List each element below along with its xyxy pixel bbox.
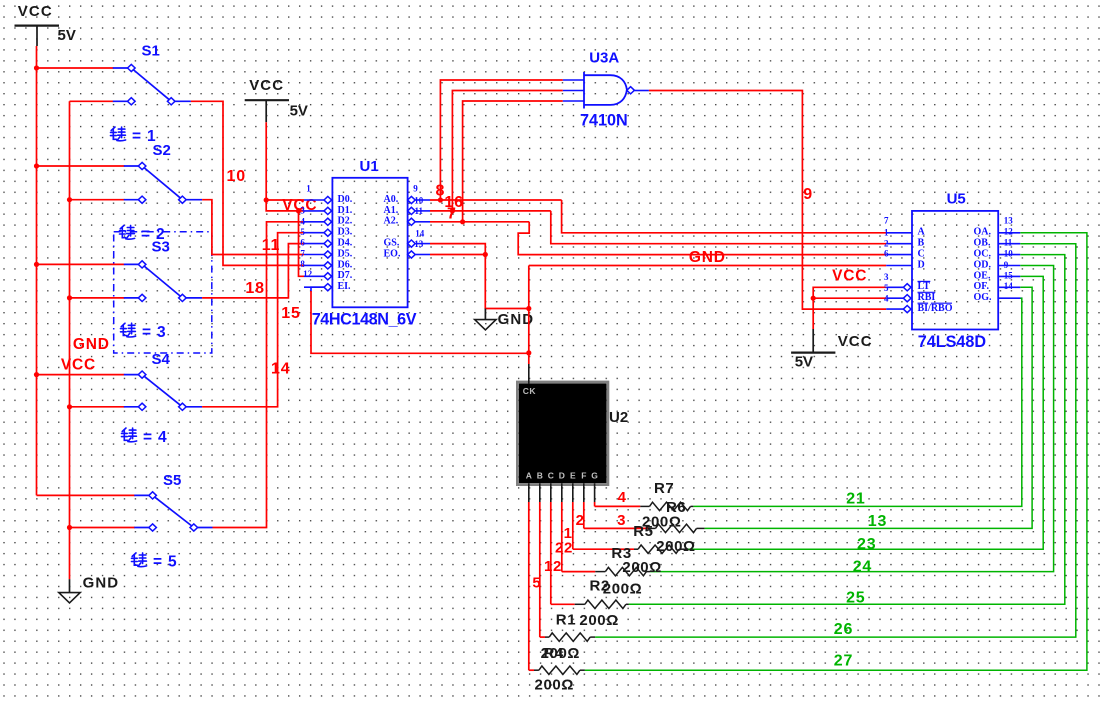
- pin U1 D3: [304, 227, 353, 238]
- svg-text:74LS48D: 74LS48D: [918, 333, 987, 351]
- wire A0 to U5 A: [562, 200, 887, 233]
- svg-text:7: 7: [300, 248, 305, 258]
- wire net 9 U3A out to U5 BI/RBO: [649, 91, 886, 310]
- pin U1 GS: [384, 238, 431, 249]
- overline LT: [918, 280, 931, 282]
- svg-text:18: 18: [245, 280, 264, 297]
- wire net 7 A2 to U3A input 3: [430, 221, 529, 223]
- svg-text:9: 9: [413, 184, 418, 194]
- svg-text:21: 21: [846, 491, 865, 508]
- svg-text:GND: GND: [83, 575, 120, 592]
- wire VCC rail to S5 pin1: [37, 494, 136, 496]
- wire R7 to U5 (green): [693, 298, 1021, 506]
- pin U5 A: [886, 227, 925, 238]
- svg-text:R7: R7: [654, 480, 674, 497]
- node A0 tap: [438, 197, 443, 202]
- svg-text:OE.: OE.: [974, 270, 991, 281]
- pin U1 D5: [304, 248, 353, 259]
- pin U1 EI: [304, 281, 351, 292]
- wire VCC to U1 D0: [265, 122, 267, 200]
- svg-text:12: 12: [544, 558, 562, 575]
- wire A2 to U5 C: [518, 222, 886, 255]
- svg-text:A: A: [918, 227, 926, 238]
- svg-text:5: 5: [300, 227, 305, 237]
- svg-text:RBI: RBI: [918, 292, 936, 303]
- overline BI/RBO: [918, 302, 953, 304]
- svg-text:OC.: OC.: [974, 249, 992, 260]
- pin numbers U1 left: [300, 184, 312, 280]
- pin U5 BI/RBO: [886, 303, 953, 314]
- svg-text:26: 26: [834, 621, 853, 638]
- svg-text:13: 13: [868, 513, 887, 530]
- svg-text:12: 12: [303, 269, 313, 279]
- svg-text:5V: 5V: [58, 27, 76, 44]
- node A2 tap: [460, 219, 465, 224]
- pin numbers U1 right: [413, 184, 424, 249]
- svg-text:GND: GND: [73, 336, 110, 353]
- svg-text:200Ω: 200Ω: [579, 612, 618, 629]
- wire U2 segment pin to R1: [540, 502, 545, 637]
- pin U1 A2: [384, 216, 431, 227]
- pin U1 EO: [384, 248, 431, 259]
- wire VCC to U1 D1: [266, 200, 304, 211]
- wire A1 to U5 B: [551, 211, 886, 244]
- svg-text:B: B: [537, 471, 543, 481]
- svg-text:D7.: D7.: [338, 270, 353, 281]
- svg-text:13: 13: [414, 239, 424, 249]
- svg-text:74HC148N_6V: 74HC148N_6V: [312, 310, 417, 328]
- pin U5 RBI: [886, 292, 935, 303]
- svg-text:13: 13: [1004, 216, 1014, 226]
- node LT-RBI junction: [811, 296, 816, 301]
- svg-text:24: 24: [853, 558, 872, 575]
- svg-text:BI/RBO: BI/RBO: [918, 303, 953, 314]
- pin numbers U5 right: [1004, 216, 1014, 291]
- svg-text:22: 22: [555, 539, 573, 556]
- svg-text:5: 5: [532, 575, 540, 592]
- wire VCC rail (left vertical): [36, 46, 38, 495]
- switch S1: [113, 64, 191, 105]
- wire U5 RBI to VCC: [813, 297, 886, 299]
- svg-text:200Ω: 200Ω: [622, 559, 661, 576]
- overline RBI: [918, 291, 936, 293]
- svg-text:D4.: D4.: [338, 238, 353, 249]
- svg-text:10: 10: [227, 168, 246, 185]
- pin U5 C: [886, 249, 925, 260]
- svg-text:12: 12: [1004, 227, 1014, 237]
- wire VCC rail to S4 pin1: [37, 374, 125, 376]
- power VCC symbol upper-middle: [245, 77, 308, 122]
- svg-text:3: 3: [884, 272, 889, 282]
- svg-text:= 3: = 3: [142, 324, 166, 341]
- display U2 pin stubs: [529, 483, 595, 502]
- svg-text:OA.: OA.: [974, 227, 992, 238]
- pin U5 OB: [974, 238, 1021, 249]
- pin U1 D0: [304, 194, 353, 205]
- wire GND rail corner to S1 pin2: [70, 100, 114, 102]
- wire U1 EO to GND: [430, 254, 485, 256]
- svg-text:OD.: OD.: [974, 259, 992, 270]
- svg-text:15: 15: [281, 305, 300, 322]
- wire U1 GS to EO junction: [430, 244, 485, 255]
- wire GND rail (second vertical): [69, 101, 71, 579]
- resistor R5 200 ohm: [634, 545, 688, 553]
- wire U2 segment pin to R2: [551, 502, 575, 604]
- svg-text:6: 6: [884, 249, 889, 259]
- svg-text:D0.: D0.: [338, 194, 353, 205]
- svg-text:EO.: EO.: [384, 248, 401, 259]
- svg-text:D5.: D5.: [338, 248, 353, 259]
- wire R3 to U5 (green): [650, 266, 1054, 572]
- label key=3: [121, 323, 136, 337]
- wire net 8 A0 to U3A input 1: [430, 199, 562, 201]
- node VCC-D0 junction: [264, 197, 269, 202]
- svg-text:200Ω: 200Ω: [535, 677, 574, 694]
- svg-text:B: B: [918, 238, 925, 249]
- node A1 tap: [450, 208, 455, 213]
- ground symbol middle: [475, 309, 535, 330]
- wire net GND to U5 D: [529, 265, 886, 267]
- svg-text:10: 10: [1004, 248, 1014, 258]
- power VCC symbol top-left: [15, 3, 76, 46]
- svg-text:U1: U1: [360, 158, 379, 175]
- pin U1 D1: [304, 205, 353, 216]
- ground symbol bottom-left: [59, 575, 119, 603]
- svg-text:D3.: D3.: [338, 227, 353, 238]
- svg-text:S4: S4: [152, 351, 171, 368]
- svg-text:VCC: VCC: [18, 3, 53, 20]
- switch S3: [124, 261, 202, 302]
- svg-text:= 2: = 2: [141, 226, 165, 243]
- wire R6 to U5 (green): [705, 287, 1033, 528]
- wire R2 to U5 (green): [629, 255, 1065, 605]
- switch S5: [134, 492, 212, 531]
- svg-text:= 5: = 5: [153, 554, 177, 571]
- wire U2 segment pin to R6: [584, 502, 648, 528]
- svg-text:25: 25: [846, 589, 865, 606]
- svg-text:5V: 5V: [795, 354, 813, 371]
- wire net 10 S1 out to U1 D6: [191, 101, 304, 265]
- pin U1 A0: [384, 194, 431, 205]
- pin U1 D4: [304, 238, 353, 249]
- svg-text:GS.: GS.: [384, 238, 400, 249]
- svg-text:C: C: [548, 471, 554, 481]
- pin U5 OG: [974, 292, 1023, 303]
- svg-text:EI.: EI.: [338, 281, 352, 292]
- svg-text:3: 3: [617, 512, 625, 529]
- svg-text:VCC: VCC: [832, 268, 867, 285]
- svg-text:F: F: [581, 471, 586, 481]
- op-amp U5 74LS48D box: [912, 211, 998, 330]
- svg-text:9: 9: [803, 186, 812, 203]
- pin U1 D6: [304, 259, 353, 270]
- node GND-EI junction: [526, 350, 531, 355]
- svg-text:11: 11: [414, 206, 423, 216]
- pin U5 OC: [974, 249, 1021, 260]
- pin U5 OE: [974, 270, 1021, 281]
- svg-text:GND: GND: [689, 249, 726, 266]
- svg-text:8: 8: [300, 259, 305, 269]
- svg-text:7410N: 7410N: [580, 112, 628, 130]
- svg-text:11: 11: [1004, 238, 1013, 248]
- svg-text:1: 1: [884, 227, 889, 237]
- switch S4: [124, 371, 202, 410]
- pin numbers U5 left: [884, 216, 889, 304]
- wire net 11 S2 out to U1 D5: [202, 200, 304, 255]
- svg-text:7: 7: [447, 206, 456, 223]
- resistor R3 200 ohm: [595, 567, 650, 575]
- pin U5 OA: [974, 227, 1021, 238]
- svg-text:3: 3: [300, 206, 305, 216]
- svg-text:OB.: OB.: [974, 238, 991, 249]
- wire net GND vertical to U2 CK: [528, 266, 530, 365]
- svg-text:D1.: D1.: [338, 205, 353, 216]
- resistor R1 200 ohm: [545, 633, 595, 641]
- svg-text:D2.: D2.: [338, 216, 353, 227]
- wire VCC rail to S3 pin1: [37, 263, 125, 265]
- wire R1 to U5 (green): [595, 244, 1076, 637]
- svg-text:14: 14: [1004, 281, 1014, 291]
- node VCC rail junctions: [34, 65, 39, 377]
- svg-text:D6.: D6.: [338, 259, 353, 270]
- svg-text:4: 4: [300, 216, 305, 226]
- svg-text:LT: LT: [918, 281, 931, 292]
- svg-text:E: E: [570, 471, 576, 481]
- svg-text:C: C: [918, 249, 925, 260]
- pin U1 D2: [304, 216, 353, 227]
- svg-text:S1: S1: [142, 43, 160, 60]
- svg-text:R1: R1: [556, 611, 576, 628]
- transistor U3A 7410N NAND gate: [563, 72, 649, 109]
- svg-text:200Ω: 200Ω: [642, 513, 681, 530]
- pin U1 D7: [304, 270, 353, 281]
- label key=1: [111, 127, 126, 141]
- svg-text:A: A: [526, 471, 532, 481]
- svg-text:7: 7: [884, 216, 889, 226]
- wire U2 segment pin to R4: [529, 502, 534, 670]
- svg-text:10: 10: [414, 195, 424, 205]
- pin U5 B: [886, 238, 924, 249]
- label key=2: [120, 225, 135, 239]
- svg-text:VCC: VCC: [249, 77, 284, 94]
- wire VCC rail to S2 pin1: [37, 165, 125, 167]
- wire net 14 S4 out to U1 D3: [202, 233, 304, 407]
- svg-text:A0.: A0.: [384, 194, 399, 205]
- svg-text:5: 5: [884, 283, 889, 293]
- svg-text:200Ω: 200Ω: [656, 538, 695, 555]
- node VCC-D1 junction: [296, 208, 301, 213]
- svg-text:OG.: OG.: [974, 292, 993, 303]
- wire U1 EI down to GND net: [311, 287, 529, 353]
- wire R4 to U5 (green): [585, 233, 1087, 670]
- label key=4: [122, 428, 137, 442]
- pin U1 A1: [384, 205, 431, 216]
- svg-text:8: 8: [436, 183, 445, 200]
- wire U2 segment pin to R3: [562, 502, 596, 572]
- svg-text:A2.: A2.: [384, 216, 399, 227]
- svg-text:6: 6: [300, 238, 305, 248]
- svg-text:23: 23: [857, 536, 876, 553]
- wire GND rail to S3 pin2: [70, 297, 125, 299]
- resistor R2 200 ohm: [575, 600, 629, 608]
- svg-text:U3A: U3A: [589, 49, 619, 66]
- svg-text:A1.: A1.: [384, 205, 399, 216]
- svg-text:2: 2: [576, 512, 584, 529]
- node EO-GS junction: [483, 252, 488, 257]
- wire GND rail to S5 pin2: [70, 527, 136, 529]
- dashed key-linkage box (S3/S4): [114, 232, 212, 353]
- wire net 16 A1 to U3A input 2: [430, 210, 551, 212]
- svg-text:S5: S5: [163, 472, 181, 489]
- wire U2 segment pin to R7: [595, 502, 641, 506]
- svg-text:4: 4: [618, 489, 627, 506]
- svg-text:15: 15: [1004, 270, 1014, 280]
- svg-text:5V: 5V: [290, 103, 308, 120]
- power VCC symbol right: [791, 329, 873, 371]
- node GND-symbol junction: [526, 306, 531, 311]
- svg-text:U2: U2: [609, 409, 628, 426]
- svg-text:U5: U5: [947, 191, 966, 208]
- wire U2 segment pin to R5: [573, 502, 634, 549]
- svg-text:9: 9: [1004, 260, 1009, 270]
- resistor R6 200 ohm: [648, 524, 705, 532]
- wire net 18 S3 out to U1 D4: [202, 244, 304, 298]
- node GND rail junctions: [67, 197, 72, 530]
- svg-text:= 4: = 4: [143, 429, 167, 446]
- wire net 16 S5 out to U1 D2: [213, 222, 305, 528]
- svg-text:11: 11: [262, 237, 281, 254]
- display segment letters A-G: [526, 471, 599, 481]
- resistor R7 200 ohm: [640, 502, 693, 510]
- pin U5 LT: [886, 281, 930, 292]
- svg-text:4: 4: [884, 293, 889, 303]
- svg-text:CK: CK: [523, 386, 537, 396]
- svg-text:200Ω: 200Ω: [541, 645, 580, 662]
- wire VCC rail to S1 pin1: [37, 67, 114, 69]
- svg-text:D: D: [559, 471, 565, 481]
- wire VCC to U1 D7: [299, 211, 305, 276]
- wire R5 to U5 (green): [688, 276, 1043, 549]
- svg-text:14: 14: [415, 228, 425, 238]
- resistor R4 200 ohm: [534, 666, 585, 674]
- svg-text:14: 14: [271, 360, 290, 377]
- wire GND rail to S2 pin2: [70, 199, 125, 201]
- display U2 seven-segment: [517, 382, 608, 485]
- svg-text:D: D: [918, 259, 925, 270]
- svg-text:200Ω: 200Ω: [603, 581, 642, 598]
- pin U5 D: [886, 259, 925, 270]
- op-amp U1 74HC148N box: [332, 178, 407, 307]
- svg-text:= 1: = 1: [132, 128, 156, 145]
- switch S2: [124, 162, 202, 203]
- pin U5 OF: [974, 281, 1021, 292]
- label key=5: [132, 553, 147, 567]
- svg-text:27: 27: [834, 652, 853, 669]
- svg-text:2: 2: [884, 238, 889, 248]
- svg-text:VCC: VCC: [61, 357, 96, 374]
- wire VCC stem (right): [812, 298, 814, 329]
- svg-text:1: 1: [306, 184, 311, 194]
- wire GND rail to S4 pin2: [70, 406, 125, 408]
- pin U5 OD: [974, 259, 1021, 270]
- svg-text:OF.: OF.: [974, 281, 990, 292]
- svg-text:VCC: VCC: [838, 333, 873, 350]
- wire U5 LT to VCC: [813, 287, 886, 298]
- wire U2 CK pin: [528, 364, 530, 383]
- svg-text:G: G: [591, 471, 598, 481]
